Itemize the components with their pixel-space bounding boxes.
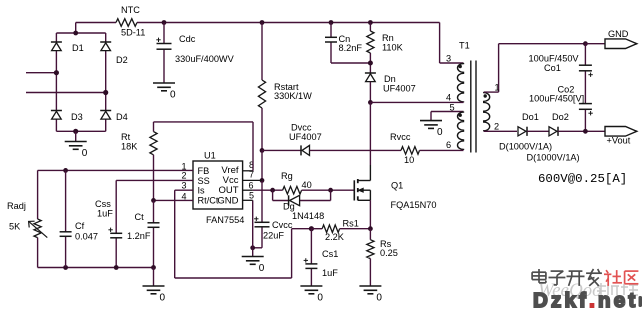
svg-text:NTC: NTC <box>121 5 140 15</box>
diode Dg <box>283 195 324 221</box>
svg-text:D4: D4 <box>116 112 128 122</box>
diode D1 <box>51 42 84 53</box>
svg-text:40: 40 <box>302 180 312 190</box>
svg-text:0: 0 <box>437 127 443 138</box>
ground Rs <box>359 286 382 304</box>
transformer T1 core <box>471 61 476 153</box>
node T1 secondary phase dot <box>484 94 487 97</box>
node Rg-Dg junction <box>270 188 275 193</box>
output port GND <box>605 29 637 49</box>
svg-text:Dvcc: Dvcc <box>291 123 312 133</box>
node Rn top junction <box>368 20 373 25</box>
wire Dg loop <box>273 190 331 200</box>
wire Cdc branch <box>163 23 165 84</box>
transistor Q1 body arrow <box>358 188 370 192</box>
diode Dn <box>365 73 416 94</box>
svg-text:100uF/450V: 100uF/450V <box>529 54 580 64</box>
wire bridge right branch <box>105 33 107 131</box>
svg-text:Rt: Rt <box>121 132 131 142</box>
wire Rstart vertical <box>261 23 263 151</box>
wire Radj bottom <box>37 238 39 268</box>
svg-text:6: 6 <box>446 140 451 150</box>
pin labels right <box>217 165 238 207</box>
svg-text:Co1: Co1 <box>544 63 561 73</box>
svg-text:5K: 5K <box>9 222 21 232</box>
pin labels left <box>198 166 219 206</box>
resistor NTC <box>116 5 145 38</box>
resistor Rvcc <box>390 132 420 165</box>
svg-text:UF4007: UF4007 <box>289 132 322 142</box>
wire FB net <box>38 170 193 219</box>
node Vcc-Dvcc junction <box>260 148 265 153</box>
pin 2 label <box>494 122 499 132</box>
svg-text:0: 0 <box>376 293 382 304</box>
node Cn-Rn junction <box>368 61 373 66</box>
pin number 2 <box>182 171 187 181</box>
diode D4 <box>100 111 128 123</box>
wire Do2 to Vout <box>558 130 605 132</box>
node Cdc junction <box>162 20 167 25</box>
svg-text:Cf: Cf <box>75 221 85 231</box>
node Rstart top junction <box>260 20 265 25</box>
svg-text:Dzkf.net: Dzkf.net <box>533 289 638 310</box>
svg-text:600V@0.25[A]: 600V@0.25[A] <box>538 172 627 186</box>
wire AC input line 2 <box>26 92 106 94</box>
svg-text:GND: GND <box>608 29 629 39</box>
capacitor Co2 <box>529 85 593 116</box>
pin number 4 <box>182 192 187 202</box>
node Is-Rs1 junction <box>309 226 314 231</box>
svg-text:110K: 110K <box>382 43 404 53</box>
svg-text:Do2: Do2 <box>552 112 569 122</box>
svg-text:FQA15N70: FQA15N70 <box>391 200 437 210</box>
svg-text:Cs1: Cs1 <box>322 249 338 259</box>
svg-text:0.25: 0.25 <box>380 248 398 258</box>
pin 4 label <box>446 93 451 103</box>
wire source vertical <box>369 200 371 228</box>
ground IC <box>242 257 265 275</box>
op-amp U1 FAN7554 box <box>193 151 244 226</box>
svg-text:1.2nF: 1.2nF <box>127 231 151 241</box>
capacitor Cf <box>60 221 98 242</box>
label Q1 <box>391 181 437 211</box>
wire Rt to pin4 node <box>153 155 155 201</box>
svg-text:D(1000V/1A): D(1000V/1A) <box>499 142 552 152</box>
pin number 6 <box>249 181 254 191</box>
wire bottom rail <box>38 267 154 269</box>
node GND rail junction <box>583 41 588 46</box>
pin number 8 <box>249 160 254 170</box>
svg-text:330uF/400WV: 330uF/400WV <box>175 54 235 64</box>
wire Cs1 branch <box>310 229 312 286</box>
svg-text:330K/1W: 330K/1W <box>274 91 312 101</box>
wire Rn branch <box>369 23 371 74</box>
node Vout junction <box>583 129 588 134</box>
diode D2 <box>100 42 128 65</box>
svg-text:T1: T1 <box>459 41 470 51</box>
wire drain vertical <box>369 102 371 165</box>
svg-text:Rn: Rn <box>382 33 394 43</box>
node gate junction <box>328 188 333 193</box>
pin 5 stub <box>243 199 253 201</box>
svg-text:Ct: Ct <box>135 212 145 222</box>
transistor Q1 channel dashes <box>357 179 359 201</box>
pin 6 label <box>446 140 451 150</box>
svg-text:1uF: 1uF <box>97 209 113 219</box>
svg-text:10: 10 <box>404 155 414 165</box>
wire Co1 branch <box>584 44 586 132</box>
svg-text:+Vout: +Vout <box>607 136 631 146</box>
svg-text:OUT: OUT <box>218 185 238 196</box>
svg-text:5: 5 <box>450 103 455 113</box>
capacitor Cn <box>325 34 362 53</box>
node IC ground junction <box>250 245 255 250</box>
resistor Rstart <box>258 80 312 108</box>
svg-text:SS: SS <box>198 176 210 186</box>
svg-text:3: 3 <box>182 181 187 191</box>
wire bridge bottom rail <box>56 130 105 132</box>
watermark chinese community text <box>532 269 638 286</box>
capacitor Co1 <box>529 54 593 77</box>
wire Dvcc to Rvcc <box>310 149 402 151</box>
svg-text:3: 3 <box>446 54 451 64</box>
node Css bottom junction <box>114 265 119 270</box>
wire OUT to Rg <box>253 189 283 191</box>
svg-text:0: 0 <box>160 293 166 304</box>
svg-text:6: 6 <box>249 181 254 191</box>
wire bridge ground stem <box>75 131 77 141</box>
capacitor Cdc <box>156 34 234 64</box>
svg-text:2: 2 <box>182 171 187 181</box>
node pin4 junction <box>151 198 156 203</box>
node Vcc pin7 junction <box>260 178 265 183</box>
svg-text:D2: D2 <box>116 55 128 65</box>
node drain junction <box>368 100 373 105</box>
label Do1 Do2 rating <box>499 142 580 163</box>
svg-text:5: 5 <box>249 191 254 201</box>
wire T1 pin5 lead <box>431 112 464 121</box>
wire Rs1 right <box>340 228 371 230</box>
svg-text:5D-11: 5D-11 <box>121 28 145 38</box>
svg-text:0: 0 <box>170 90 176 101</box>
svg-text:1uF: 1uF <box>322 268 338 278</box>
pin 3 label <box>446 54 451 64</box>
wire Do1 to Do2 <box>527 130 549 132</box>
svg-text:D3: D3 <box>71 112 83 122</box>
wire Vcc down to Cvcc <box>253 180 262 247</box>
svg-text:8.2nF: 8.2nF <box>339 43 363 53</box>
label T1 <box>459 41 470 51</box>
capacitor Css <box>95 199 122 238</box>
pin number 5 <box>249 191 254 201</box>
transistor Q1 gate bar <box>353 180 355 200</box>
svg-text:Rg: Rg <box>281 171 293 181</box>
wire T1 pin3 lead <box>440 62 464 64</box>
node source junction <box>368 226 373 231</box>
wire T1 pin1 lead <box>484 44 586 92</box>
resistor Rs <box>367 239 398 259</box>
transformer T1 aux winding <box>457 112 463 151</box>
svg-text:0.047: 0.047 <box>75 232 98 242</box>
pin 1 label <box>495 83 500 93</box>
pin 6 stub <box>243 189 253 191</box>
svg-text:1N4148: 1N4148 <box>292 211 324 221</box>
svg-text:2.2K: 2.2K <box>325 232 345 242</box>
svg-text:Q1: Q1 <box>391 181 403 191</box>
svg-text:UF4007: UF4007 <box>383 84 416 94</box>
wire bridge top rail <box>56 32 105 34</box>
node bridge bottom junction <box>73 129 78 134</box>
node T1 primary phase dot <box>459 65 462 68</box>
wire Cn branch <box>331 23 370 64</box>
svg-text:Cdc: Cdc <box>179 34 196 44</box>
svg-text:Dg: Dg <box>283 202 295 212</box>
svg-text:Rt/Ct: Rt/Ct <box>198 196 219 206</box>
node AC2 junction <box>103 90 108 95</box>
svg-text:0: 0 <box>82 148 88 159</box>
svg-text:0: 0 <box>317 293 323 304</box>
transistor Q1 drain lead <box>358 165 370 181</box>
wire Vcc down to pin7 <box>261 150 263 180</box>
ground T1 pin5 <box>420 121 443 139</box>
wire Rs bottom <box>369 259 371 286</box>
node Cf bottom junction <box>63 265 68 270</box>
svg-text:2: 2 <box>494 122 499 132</box>
node Cn junction <box>329 20 334 25</box>
wire GND rail to connector <box>585 43 605 45</box>
resistor Rt <box>121 132 157 155</box>
pin 5 label <box>450 103 455 113</box>
svg-text:4: 4 <box>446 93 451 103</box>
svg-text:Css: Css <box>95 199 111 209</box>
ground bridge <box>65 142 88 160</box>
wire IC ground stem <box>252 200 254 256</box>
svg-text:Radj: Radj <box>7 201 26 211</box>
potentiometer Radj <box>7 201 47 238</box>
wire Rvcc to T1 pin6 <box>420 149 464 151</box>
svg-text:18K: 18K <box>121 142 138 152</box>
svg-text:GND: GND <box>217 196 238 207</box>
diode Do1 <box>518 112 539 136</box>
capacitor Cs1 <box>304 249 339 278</box>
node Ct bottom junction <box>151 265 156 270</box>
watermark WeeQoo script <box>538 280 638 301</box>
diode D3 <box>51 111 83 123</box>
output port +Vout <box>605 127 637 146</box>
ground Cs1 <box>300 286 323 304</box>
wire Rs1 left <box>311 228 322 230</box>
wire Dn to drain node <box>369 82 371 103</box>
wire Dvcc left <box>262 149 301 151</box>
wire SS net <box>116 180 193 267</box>
resistor Rn <box>367 31 404 53</box>
transformer T1 primary winding <box>457 63 463 102</box>
node Cf junction top <box>63 168 68 173</box>
wire Vref loop <box>154 122 254 171</box>
wire Rs top <box>369 229 371 240</box>
wire bridge left branch <box>55 33 57 131</box>
transistor Q1 source lead <box>358 190 370 200</box>
wire Is net <box>175 190 312 278</box>
transformer T1 secondary winding <box>484 92 490 131</box>
wire Rg to gate node <box>302 189 355 191</box>
svg-text:FAN7554: FAN7554 <box>206 215 244 225</box>
svg-text:D1: D1 <box>72 43 84 53</box>
svg-text:22uF: 22uF <box>263 231 284 241</box>
svg-text:100uF/450[V]: 100uF/450[V] <box>529 94 584 104</box>
svg-text:Rvcc: Rvcc <box>390 132 411 142</box>
capacitor Ct <box>127 212 160 241</box>
pin number 7 <box>249 170 254 180</box>
wire Ct branch <box>153 200 155 267</box>
resistor Rs1 <box>322 219 359 243</box>
wire top DC bus <box>76 23 440 64</box>
svg-text:Do1: Do1 <box>522 112 539 122</box>
svg-text:1: 1 <box>495 83 500 93</box>
pin 8 stub <box>243 170 253 172</box>
pin number 1 <box>182 162 187 172</box>
resistor Rg <box>281 171 312 194</box>
diode Do2 <box>549 112 569 136</box>
svg-text:U1: U1 <box>204 151 216 161</box>
wire Cf branch <box>65 170 67 267</box>
wire T1 pin4 lead <box>370 101 463 103</box>
wire pin4 net <box>154 199 194 201</box>
svg-text:Dn: Dn <box>384 74 396 84</box>
watermark big site name <box>533 289 642 310</box>
label output rating <box>538 172 627 186</box>
svg-text:D(1000V/1A): D(1000V/1A) <box>527 153 580 163</box>
capacitor Cvcc <box>254 217 293 241</box>
diode Dvcc <box>289 123 322 156</box>
node T1 aux phase dot <box>459 114 462 117</box>
pin number 3 <box>182 181 187 191</box>
svg-text:Cvcc: Cvcc <box>272 220 293 230</box>
svg-text:FB: FB <box>198 166 210 176</box>
wire rail ground stem <box>153 268 155 287</box>
svg-text:0: 0 <box>259 263 265 274</box>
node AC1 junction <box>54 70 59 75</box>
ground Cdc <box>153 83 176 101</box>
ground bottom rail <box>143 286 166 304</box>
svg-text:Is: Is <box>198 186 206 196</box>
node bridge top junction <box>73 31 78 36</box>
wire AC input line 1 <box>26 72 56 74</box>
wire T1 pin2 lead <box>484 130 517 132</box>
pin 7 stub <box>243 179 262 181</box>
svg-text:Rs1: Rs1 <box>343 219 359 229</box>
